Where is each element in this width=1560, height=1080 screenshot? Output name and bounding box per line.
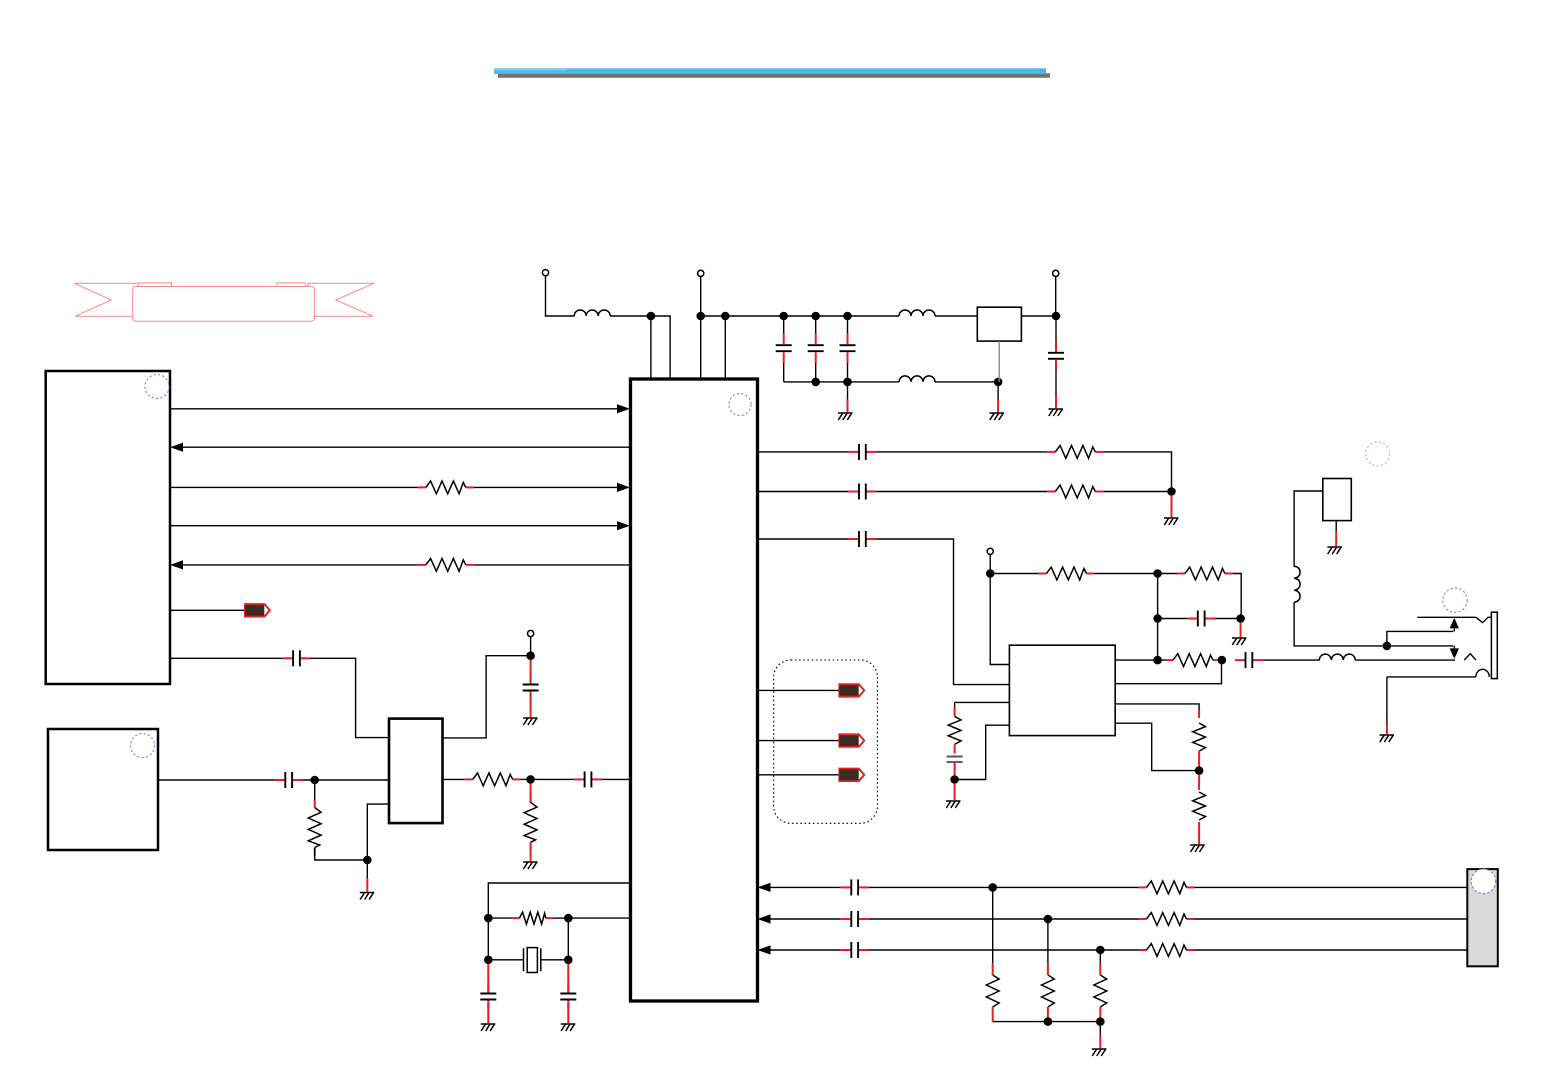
wire junction to C3: [531, 778, 574, 780]
wire C8 to bottom rail: [815, 363, 817, 382]
capacitor C1: [283, 650, 311, 666]
wire U3 to U1 pin2: [183, 446, 632, 448]
junction P4 net: [986, 569, 995, 578]
wire rail over caps: [784, 315, 848, 317]
ground: [1232, 638, 1247, 645]
ground: [523, 862, 538, 869]
junction B: [564, 914, 573, 923]
ferrite bead FB1: [245, 604, 270, 616]
ground: [561, 1024, 576, 1031]
wire C11 to R7: [876, 451, 1047, 453]
capacitor C10: [1048, 353, 1064, 359]
wire U5 out to junction: [1115, 659, 1157, 661]
ground lead: [954, 784, 956, 800]
jack tip contact chevron: [1464, 654, 1476, 660]
junction C8 bottom: [811, 378, 820, 387]
block U5 (audio amp): [1009, 645, 1115, 735]
wire junction to U3 top pin B: [651, 316, 670, 379]
junction R11/C15: [1218, 656, 1227, 665]
ground: [990, 413, 1005, 420]
junction power rail C: [721, 312, 730, 321]
ribbon banner right tail: [308, 283, 374, 316]
red lead R14 lower: [1198, 822, 1200, 844]
ground: [1380, 735, 1395, 742]
ribbon banner left tail: [74, 283, 140, 316]
junction C8 top: [811, 312, 820, 321]
wire C7 to bottom rail: [783, 363, 785, 382]
wire C8 upper lead: [815, 316, 817, 333]
wire pulldown bus: [993, 1021, 1101, 1023]
wire R6 to junction B: [553, 917, 569, 919]
wire bottom rail: [784, 381, 899, 383]
wire C13 to U5: [876, 539, 1009, 685]
junction feedback A: [1153, 569, 1162, 578]
wire junction to C10: [1055, 316, 1057, 341]
wire R1 to U3: [474, 486, 618, 488]
junction jack switch net: [1383, 642, 1392, 651]
wire P2 to U3 top pin C: [700, 277, 702, 380]
red lead C7 lower: [783, 352, 785, 363]
capacitor C3: [574, 771, 602, 787]
wire junction B to U3: [568, 917, 630, 919]
junction R13/R14: [1195, 766, 1204, 775]
wire R15 to J2: [1195, 886, 1468, 888]
wire junction A to R10: [1158, 573, 1177, 575]
wire C5 to ground: [487, 1003, 489, 1023]
ground: [1327, 547, 1342, 554]
wire R3 to ground junction: [315, 848, 368, 860]
capacitor C7: [776, 345, 792, 351]
wire U3 to FB2: [758, 689, 840, 691]
wire C9 upper lead: [847, 316, 849, 333]
wire junction A down: [1157, 574, 1159, 619]
wire U1 pin5 to R2: [183, 564, 418, 566]
capacitor C17: [841, 879, 869, 895]
junction C7 top: [779, 312, 788, 321]
wire C19 to R21: [869, 949, 1139, 951]
red lead C8: [815, 333, 817, 344]
wire R9 to junction: [1094, 573, 1157, 575]
red lead R12 lower: [954, 745, 956, 754]
jack ring contact chevron: [1476, 617, 1492, 622]
wire junction to R3: [314, 780, 316, 807]
resistor R14: [1193, 792, 1206, 820]
junction C9 top: [843, 312, 852, 321]
junction C: [484, 956, 493, 965]
wire U1 pin3 to R1: [170, 486, 418, 488]
red lead C16 lower: [954, 762, 956, 779]
resistor R1: [418, 481, 474, 494]
wire junction B to C14: [1158, 618, 1188, 620]
red lead R18: [1099, 963, 1101, 975]
wire down: [954, 702, 956, 707]
arrowhead down (jack switch): [1450, 648, 1459, 659]
block U2 (lower-left block): [48, 729, 158, 850]
ground: [838, 413, 853, 420]
red lead R17 lower: [1047, 1007, 1049, 1022]
wire D to C6: [567, 964, 569, 990]
arrowhead into U3 pin3: [617, 483, 630, 492]
inductor L1: [574, 310, 610, 316]
ground lead: [1240, 623, 1242, 637]
resistor R18: [1139, 913, 1195, 926]
junction bus2: [1044, 915, 1053, 924]
wire U5 pin to R13: [1115, 704, 1199, 710]
resistor R5: [524, 794, 537, 850]
capacitor C18: [841, 911, 869, 927]
capacitor C14: [1187, 611, 1215, 627]
ground lead: [1335, 531, 1337, 546]
wire P3 down: [1055, 277, 1057, 317]
resistor R8: [1047, 485, 1103, 498]
terminal P4: [987, 548, 993, 554]
capacitor C13: [848, 531, 876, 547]
wire U4 to VCC junction: [443, 656, 531, 738]
ground lead: [1171, 496, 1173, 517]
wire sleeve to ground: [1386, 677, 1388, 726]
wire C to crystal: [488, 959, 523, 961]
wire U2 to C2: [158, 779, 275, 781]
wire bus3 down: [1099, 950, 1101, 963]
wire jack ring contact: [1417, 616, 1476, 618]
wire R10 down: [1233, 574, 1241, 619]
wire R18 to J2: [1195, 918, 1468, 920]
wire R5 to ground: [530, 842, 532, 861]
marker circle on U1: [145, 375, 169, 399]
arrowhead into U3 pin4: [617, 521, 630, 530]
arrowhead into U3 bus 1: [758, 883, 771, 892]
wire C4 to ground: [530, 694, 532, 718]
ground: [1092, 1049, 1107, 1056]
resistor R12: [948, 716, 961, 744]
ground: [1049, 409, 1064, 416]
title underline shadow: [498, 73, 1050, 78]
wire R8 to junction: [1103, 491, 1171, 493]
wire P1 to L1: [546, 276, 575, 316]
capacitor C2: [275, 772, 303, 788]
capacitor C8: [808, 345, 824, 351]
capacitor C15: [1235, 652, 1263, 668]
title underline highlight: [494, 68, 1046, 74]
wire U3 to crystal junction A: [488, 883, 630, 918]
red lead R13 lower: [1198, 751, 1200, 770]
red lead C10: [1055, 341, 1057, 352]
arrowhead up (jack switch): [1450, 618, 1459, 629]
capacitor C6: [560, 985, 576, 1009]
capacitor C16: [947, 757, 963, 763]
block U4 (small mid block): [389, 719, 443, 824]
wire to ground: [1099, 1022, 1101, 1035]
terminal VCC: [528, 630, 534, 636]
capacitor C19: [841, 942, 869, 958]
wire C10 down: [1055, 369, 1057, 395]
ground lead: [1386, 726, 1388, 734]
ground: [1164, 518, 1179, 525]
wire junction B down: [1157, 619, 1159, 661]
marker circle on U3: [729, 394, 751, 416]
red lead R13: [1198, 710, 1200, 718]
red lead R14: [1198, 775, 1200, 790]
connector J2: [1467, 869, 1498, 966]
wire U6 bottom to junction: [998, 341, 1000, 382]
wire rail B: [701, 315, 726, 317]
junction R7/R8: [1167, 487, 1176, 496]
wire C6 to ground: [567, 1003, 569, 1023]
wire bus2 down: [1047, 919, 1049, 963]
junction pulldown bus A: [1044, 1017, 1053, 1026]
wire U7 to L5: [1294, 491, 1323, 567]
wire C15 to L4: [1263, 659, 1320, 661]
wire L3 to junction: [935, 381, 998, 383]
resistor R11: [1165, 654, 1221, 667]
wire C9 to bottom rail: [847, 363, 849, 382]
junction power rail B: [696, 312, 705, 321]
resistor R15: [1139, 881, 1195, 894]
wire C7 upper lead: [783, 316, 785, 333]
wire R7 down: [1103, 452, 1171, 492]
wire R21 to J2: [1195, 949, 1468, 951]
wire junction to R9: [990, 573, 1038, 575]
ribbon banner left fold: [137, 283, 172, 289]
wire R4 to junction: [521, 778, 531, 780]
wire L5 to jack switch: [1294, 602, 1453, 646]
wire junction to C4: [530, 660, 532, 682]
wire A down: [487, 918, 489, 960]
wire U3 to C12: [758, 491, 849, 493]
inductor L4: [1319, 654, 1355, 660]
ground: [946, 801, 961, 808]
junction bus1: [988, 883, 997, 892]
resistor R21: [1139, 944, 1195, 957]
red lead R18 lower: [1099, 1007, 1101, 1022]
wire R2 to U3: [474, 564, 632, 566]
jack plate J1: [1491, 612, 1497, 678]
wire U1 pin4 to U3: [170, 525, 618, 527]
crystal Y1: [524, 948, 541, 973]
junction A: [484, 914, 493, 923]
junction power rail A: [647, 312, 656, 321]
arrowhead into U3 pin1: [617, 404, 630, 413]
wire jack sleeve: [1387, 676, 1476, 678]
resistor R18: [1094, 975, 1107, 1007]
junction at R4/C3: [526, 775, 535, 784]
ground lead: [997, 400, 999, 413]
blue marker circle at jack: [1443, 588, 1467, 612]
capacitor C4: [523, 676, 539, 700]
wire junction to U3 top pin D: [724, 316, 726, 379]
capacitor C11: [848, 444, 876, 460]
red lead R12: [954, 708, 956, 717]
terminal P3: [1053, 270, 1059, 276]
wire U3 to FB3: [758, 740, 840, 742]
terminal P1: [542, 270, 548, 276]
red lead C9 lower: [847, 352, 849, 363]
resistor R3: [308, 800, 321, 856]
junction at VCC terminal: [526, 651, 535, 660]
wire U7 bottom: [1335, 521, 1337, 531]
wire bus 2 to C18: [771, 918, 841, 920]
wire C3 to U3: [602, 778, 631, 780]
wire C1 to U4: [311, 658, 390, 737]
red lead C10 lower: [1055, 359, 1057, 369]
ground lead: [1055, 395, 1057, 408]
wire A to R6: [488, 917, 512, 919]
junction feedback B: [1153, 614, 1162, 623]
junction C9 bottom: [843, 378, 852, 387]
terminal P2: [698, 270, 704, 276]
ground lead: [366, 878, 368, 892]
resistor R16: [986, 975, 999, 1007]
wire crystal to D: [541, 959, 569, 961]
ribbon banner body: [133, 287, 315, 322]
wire rail to C7: [725, 315, 783, 317]
wire C17 to R15: [869, 886, 1139, 888]
capacitor C5: [480, 985, 496, 1009]
wire U5 pin to R11 junction: [1115, 660, 1221, 684]
wire U4 to R4: [443, 778, 465, 780]
red marker circle: [1366, 442, 1390, 466]
resistor R13: [1193, 723, 1206, 751]
marker circle on U2: [131, 734, 155, 758]
capacitor C9: [840, 345, 856, 351]
wire junction down to R5: [530, 784, 532, 803]
wire U3 to C13: [758, 538, 849, 540]
wire junction to upper switch arm: [1387, 631, 1453, 646]
red lead R17: [1047, 963, 1049, 975]
wire C14 to junction: [1215, 618, 1240, 620]
wire P4 net to U5 pin: [990, 574, 1009, 665]
resistor R17: [1042, 975, 1055, 1007]
red lead C8 lower: [815, 352, 817, 363]
resistor R4: [465, 773, 521, 786]
red lead C9: [847, 333, 849, 344]
wire C2 to U4: [303, 779, 389, 781]
wire junction to U3 top pin A: [650, 316, 652, 379]
wire bus 3 to C19: [771, 949, 841, 951]
block U6 (filter): [977, 307, 1021, 341]
wire L4 to jack tip: [1355, 659, 1455, 661]
red lead C7: [783, 333, 785, 344]
resistor R6: [513, 912, 553, 924]
arrow stem: [1453, 646, 1455, 649]
ferrite bead FB3: [839, 734, 864, 746]
wire U3 to C11: [758, 451, 849, 453]
marker circle on J2: [1471, 869, 1496, 894]
main IC U3: [631, 379, 758, 1001]
ferrite bead FB4: [839, 769, 864, 781]
arrowhead into U3 bus 2: [758, 914, 771, 923]
inductor L5: [1294, 566, 1300, 602]
resistor R7: [1047, 446, 1103, 459]
ground lead: [847, 400, 849, 413]
junction at C2 output: [310, 776, 319, 785]
wire junction to R11: [1158, 659, 1165, 661]
block U1 (left connector block): [46, 371, 170, 684]
resistor R2: [418, 559, 474, 572]
red lead R16: [992, 963, 994, 975]
wire junction down: [997, 382, 999, 400]
ground junction: [363, 856, 372, 865]
wire U3 to FB4: [758, 774, 840, 776]
arrow stem: [1453, 628, 1455, 631]
wire B down: [567, 918, 569, 960]
red lead R16 lower: [992, 1007, 994, 1022]
wire junction to terminal: [530, 637, 532, 656]
ribbon banner right fold: [277, 283, 308, 289]
junction C16/ground: [950, 775, 959, 784]
junction P3 net: [1052, 312, 1061, 321]
wire L1 to junction: [610, 315, 651, 317]
wire U4 pin to ground junction: [367, 804, 389, 860]
wire U5 pin to junction: [1115, 723, 1199, 770]
arrowhead into U1 pin5: [170, 560, 183, 569]
junction pulldown bus B: [1096, 1017, 1105, 1026]
ground lead: [1099, 1035, 1101, 1048]
wire C to C5: [487, 964, 489, 990]
wire U1 pin6 to FB1: [170, 609, 245, 611]
inductor L3: [899, 376, 935, 382]
junction U6 ground net: [994, 378, 1003, 387]
resistor R9: [1038, 567, 1094, 580]
wire U1 pin7 to C1: [170, 657, 283, 659]
inductor L2: [899, 310, 935, 316]
junction output net: [1153, 656, 1162, 665]
wire L2 to U6: [935, 315, 977, 317]
wire U6 to junction: [1021, 315, 1056, 317]
stub R11: [1220, 659, 1223, 661]
wire U5 pin to R12 net: [955, 701, 1010, 703]
ferrite bead FB2: [839, 684, 864, 696]
wire junction to ground: [366, 860, 368, 878]
resistor R10: [1177, 567, 1233, 580]
junction bus3: [1096, 946, 1105, 955]
ground: [1190, 845, 1205, 852]
wire junction to U5 pin: [955, 725, 1010, 779]
ground: [481, 1024, 496, 1031]
junction D: [564, 956, 573, 965]
ground: [360, 893, 375, 900]
wire bus 1 to C17: [771, 886, 841, 888]
jack sleeve hook: [1476, 669, 1489, 677]
junction R10/C14: [1236, 614, 1245, 623]
wire bus1 down: [992, 887, 994, 963]
wire C9 bottom to ground: [847, 382, 849, 400]
ground: [523, 718, 538, 725]
wire C12 to R8: [876, 491, 1047, 493]
wire C18 to R18: [869, 918, 1139, 920]
block U7 (right small box): [1323, 479, 1352, 521]
wire P4 down: [989, 554, 991, 573]
arrowhead into U3 bus 3: [758, 945, 771, 954]
wire U1 pin1 to U3: [170, 408, 618, 410]
dotted group outline: [774, 660, 878, 823]
arrowhead into U1 pin2: [170, 443, 183, 452]
wire rail to L2: [848, 315, 900, 317]
capacitor C12: [848, 484, 876, 500]
